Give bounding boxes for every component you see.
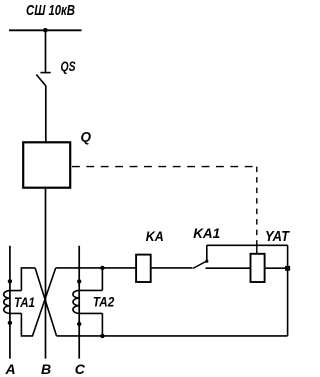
wire YAT to right rail bbox=[265, 267, 288, 269]
svg-text:СШ 10кВ: СШ 10кВ bbox=[26, 2, 75, 19]
node TA2 bottom wire junction bbox=[100, 334, 104, 338]
svg-text:KA1: KA1 bbox=[193, 225, 220, 241]
wire secondary bottom bus bbox=[57, 335, 288, 337]
node TA2 upper dot bbox=[77, 279, 81, 283]
wire KA to contact KA1 bbox=[151, 267, 193, 269]
wire QS to Q bbox=[45, 86, 47, 142]
wire phase C bbox=[78, 246, 80, 359]
busbar СШ bbox=[9, 29, 82, 31]
wire phase A bbox=[9, 246, 11, 359]
node KA1 pivot bbox=[205, 260, 208, 263]
wire crossover X diagonal 2 bbox=[33, 268, 56, 336]
contact KA1 blade bbox=[193, 261, 207, 268]
node TA1 upper dot bbox=[8, 279, 12, 283]
wire crossover X diagonal 1 bbox=[35, 268, 56, 336]
dashed link Q horizontal bbox=[72, 166, 257, 168]
dashed link vertical to YAT bbox=[256, 167, 258, 254]
CT TA2 bracket top vertical bbox=[101, 268, 103, 291]
node right rail square junction bbox=[285, 266, 290, 271]
wire bus to QS bbox=[45, 30, 47, 72]
svg-text:QS: QS bbox=[61, 58, 76, 74]
node bus junction bbox=[43, 28, 48, 33]
node TA2 top wire junction bbox=[100, 266, 104, 270]
CT TA1 bracket top bbox=[21, 268, 35, 291]
wire dashed tail into YAT top bbox=[256, 245, 258, 254]
disconnector QS blade bbox=[36, 75, 46, 87]
CT TA1 bracket bottom bbox=[21, 313, 33, 336]
trip coil YAT box bbox=[251, 254, 265, 282]
breaker Q box bbox=[23, 142, 70, 187]
relay coil KA bbox=[136, 255, 151, 282]
node TA1 lower dot bbox=[8, 321, 12, 325]
CT TA1 winding stubs bbox=[10, 291, 22, 314]
CT TA2 winding stubs bbox=[79, 290, 102, 313]
svg-text:YAT: YAT bbox=[265, 229, 290, 245]
wire upper run to right rail bbox=[207, 244, 288, 246]
svg-text:KA: KA bbox=[146, 228, 164, 244]
node TA2 lower dot bbox=[77, 322, 81, 326]
wire KA1 pivot riser bbox=[206, 245, 208, 261]
disconnector QS fixed contact tick bbox=[40, 72, 50, 74]
svg-text:TA1: TA1 bbox=[14, 294, 35, 310]
wire secondary top bus to KA bbox=[56, 267, 136, 269]
wire Q down phase B bbox=[45, 188, 47, 359]
svg-text:Q: Q bbox=[81, 129, 92, 144]
CT TA1 winding loops bbox=[4, 291, 10, 314]
svg-text:C: C bbox=[75, 361, 86, 377]
wire right rail vertical bbox=[287, 245, 289, 336]
svg-text:A: A bbox=[5, 361, 16, 377]
svg-text:TA2: TA2 bbox=[93, 293, 115, 309]
CT TA2 winding loops bbox=[73, 290, 79, 313]
wire contact to YAT bbox=[206, 267, 251, 269]
CT TA2 bracket bottom vertical bbox=[101, 313, 103, 336]
svg-text:B: B bbox=[41, 361, 51, 377]
